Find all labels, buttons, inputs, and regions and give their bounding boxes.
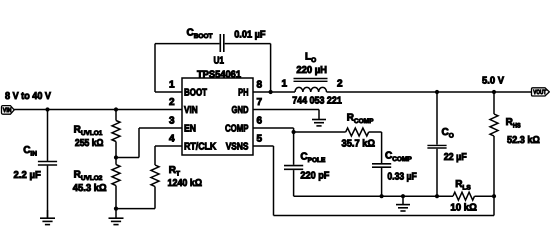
svg-text:22 µF: 22 µF [444,152,467,163]
svg-text:45.3 kΩ: 45.3 kΩ [73,183,107,194]
svg-text:1240 kΩ: 1240 kΩ [168,178,203,189]
svg-text:PH: PH [238,87,248,98]
svg-text:220 µH: 220 µH [296,65,327,76]
svg-text:52.3 kΩ: 52.3 kΩ [507,135,540,146]
svg-text:VIN: VIN [184,105,198,116]
svg-text:6: 6 [257,116,263,127]
svg-text:EN: EN [184,123,196,134]
svg-text:BOOT: BOOT [184,87,207,98]
svg-text:COMP: COMP [225,123,249,134]
svg-text:0.01 µF: 0.01 µF [234,30,265,41]
svg-text:10 kΩ: 10 kΩ [450,203,477,214]
svg-text:2: 2 [169,97,175,108]
svg-text:5.0 V: 5.0 V [482,76,504,87]
svg-text:35.7 kΩ: 35.7 kΩ [342,139,376,150]
svg-text:2.2 µF: 2.2 µF [14,170,41,181]
svg-text:GND: GND [232,105,249,116]
svg-text:220 pF: 220 pF [300,171,329,182]
svg-text:3: 3 [169,116,175,127]
svg-text:RT/CLK: RT/CLK [184,141,217,152]
svg-text:5: 5 [257,134,263,145]
svg-text:8: 8 [257,80,263,91]
svg-text:1: 1 [169,80,175,91]
svg-text:VOUT: VOUT [533,89,546,96]
svg-text:1: 1 [281,78,287,89]
svg-text:744 053 221: 744 053 221 [292,96,342,107]
svg-text:7: 7 [257,97,263,108]
svg-text:VIN: VIN [3,107,12,114]
svg-text:TPS54061: TPS54061 [197,70,241,81]
svg-text:8 V to 40 V: 8 V to 40 V [5,91,51,102]
svg-text:4: 4 [169,134,175,145]
svg-text:0.33 µF: 0.33 µF [387,172,416,183]
svg-text:VSNS: VSNS [226,141,249,152]
svg-text:255 kΩ: 255 kΩ [75,138,104,149]
svg-text:U1: U1 [214,56,225,67]
svg-text:2: 2 [337,78,343,89]
